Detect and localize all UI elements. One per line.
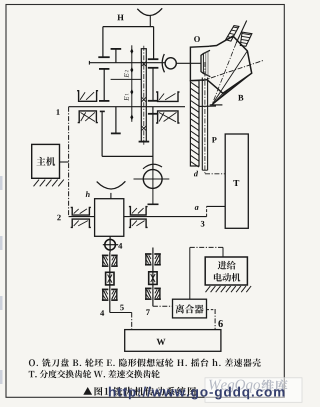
label H — [117, 15, 123, 21]
gear above upper shaft — [111, 49, 122, 63]
gear right below shaft1 — [148, 107, 158, 170]
label E1 — [124, 97, 129, 101]
bearing shaft1 left lower — [78, 111, 98, 123]
index change gears box T — [225, 134, 248, 228]
wire stack2 to clutch — [153, 305, 173, 307]
label 1 — [57, 109, 60, 115]
bearing shaft1 left upper — [77, 91, 98, 102]
bearing shaft2 left lower — [71, 219, 91, 227]
shaft 2-3 right — [124, 216, 207, 218]
edge marks — [0, 176, 3, 384]
differential box — [95, 199, 124, 237]
label 2 — [57, 215, 61, 221]
node a jog — [207, 206, 226, 216]
label a — [195, 206, 199, 210]
blade section hatch left — [226, 26, 239, 41]
gear cap on H left leg — [98, 56, 109, 58]
wire mesh line — [111, 78, 142, 80]
ground hatch under main machine — [34, 180, 64, 187]
bearing shaft1 right lower — [156, 111, 179, 123]
gear below shaft1 — [111, 107, 121, 134]
differential change gears box W — [125, 330, 221, 352]
crown gear E column — [139, 46, 150, 145]
milling cutter disc and wheel blank B — [207, 36, 252, 105]
label 5 — [120, 305, 124, 311]
bearing shaft1 right upper — [156, 92, 179, 101]
label 4 upper — [118, 243, 122, 249]
wire d to T — [205, 173, 225, 175]
watermark script — [209, 380, 260, 393]
idler gear right column — [148, 68, 159, 101]
main machine box 主机 — [32, 144, 60, 178]
label O — [194, 36, 200, 42]
differential housing bell h — [97, 181, 126, 198]
wire upper shaft — [89, 61, 164, 65]
watermark badge — [205, 378, 302, 403]
label B — [238, 95, 243, 101]
change gear stack shaft 4-5 — [102, 252, 118, 312]
bearing shaft2 right upper — [129, 207, 148, 215]
blade section hatch right — [240, 32, 252, 46]
cutter blade axis — [212, 21, 247, 105]
shaft 1 — [69, 105, 216, 108]
wire vertical connect dash-dot — [68, 107, 70, 217]
label 4 lower — [100, 310, 104, 316]
watermark url — [109, 387, 285, 400]
cradle arc symbol H — [137, 8, 162, 26]
label 6 — [218, 320, 223, 327]
label h — [86, 191, 90, 197]
wheel blank axis — [202, 60, 264, 81]
wire main machine link — [60, 161, 69, 163]
wire motor to clutch — [190, 247, 223, 299]
watermark weiku — [262, 379, 288, 392]
shaft 2 — [69, 216, 95, 218]
clutch box 离合器 — [173, 299, 207, 318]
caption line 1 — [29, 359, 261, 367]
bearing shaft2 right lower — [129, 219, 148, 227]
bearing shaft2 left upper — [71, 207, 91, 215]
bevel coupling circle — [162, 54, 201, 72]
change gear stack shaft 7 — [145, 248, 161, 307]
label 3 — [201, 221, 205, 227]
bevel gear circle at differential input — [134, 164, 170, 204]
label E2 — [124, 73, 129, 77]
wire shaft5 horizontal — [110, 312, 132, 314]
label 7 — [146, 309, 150, 315]
wire to W box — [131, 313, 133, 330]
virtual crown gear contact line E — [130, 45, 133, 122]
feed motor box 进给电动机 — [205, 257, 247, 285]
slide column hatched — [190, 81, 199, 168]
label d — [194, 171, 198, 177]
label P — [212, 137, 217, 142]
cutter head housing O — [190, 46, 210, 80]
gear housing box — [100, 111, 153, 156]
caption line 2 — [29, 370, 160, 378]
figure caption — [83, 387, 196, 396]
cradle frame H — [103, 27, 154, 60]
bevel mesh symbol 4 — [103, 236, 118, 252]
ground hatch under motor — [206, 286, 252, 292]
wire clutch to node6 — [207, 309, 216, 330]
gear cap on H right leg — [148, 58, 159, 60]
cutter spindle sleeve — [202, 62, 207, 174]
idler gear left column — [99, 69, 109, 101]
